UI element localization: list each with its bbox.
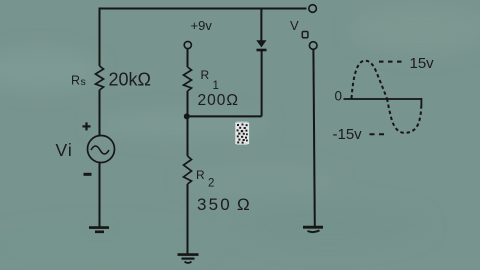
svg-text:2: 2 [208,178,214,190]
ground (Vi) [89,228,109,232]
svg-text:Ω: Ω [237,195,250,214]
wire 9v to R1 [187,49,189,67]
terminal Vo bottom [309,42,317,50]
resistor R2 [184,156,192,184]
label plus (Vi) [83,122,91,130]
waveform positive half-cycle [352,61,388,99]
svg-text:R: R [71,74,80,88]
waveform peak dashed level [379,61,404,63]
svg-text:R: R [196,168,205,182]
svg-text:-15v: -15v [333,126,363,143]
waveform graph axis [344,98,422,106]
svg-text:1: 1 [213,80,219,92]
wire Vi to ground [99,163,101,228]
waveform negative half-cycle [387,99,421,133]
wire R1 to node [187,91,189,116]
artifact white blob [235,122,249,146]
label minus (Vi) [84,173,92,176]
wire top horizontal [99,8,307,10]
svg-text:350: 350 [197,195,232,214]
label R1 [201,68,219,92]
node junction [184,113,190,119]
resistor Rs [96,66,104,90]
svg-text:Vi: Vi [56,140,73,160]
label 350 ohm [197,195,250,214]
wire Rs to Vi [99,90,101,136]
waveform trough dashed level [370,133,387,135]
source Vi [88,136,115,163]
svg-text:15v: 15v [410,55,435,72]
svg-text:s: s [81,76,86,88]
svg-text:+9v: +9v [191,18,213,33]
diode D1 [256,9,266,51]
wire Vo to ground [313,49,314,227]
wire node to diode branch [187,115,262,117]
svg-text:V: V [290,18,299,33]
wire R2 to ground [187,184,189,254]
terminal +9v [184,41,191,48]
svg-text:200Ω: 200Ω [198,92,239,109]
label Rs [71,74,86,89]
ground (Vo) [303,227,323,232]
wire diode branch vertical [261,51,263,117]
label Vo [290,18,308,38]
label R2 [196,168,214,190]
svg-text:20kΩ: 20kΩ [109,70,151,90]
resistor R1 [184,67,192,91]
ground (R2) [178,255,199,263]
svg-text:0: 0 [335,89,343,104]
wire node to R2 [187,116,189,156]
svg-text:R: R [201,68,210,82]
wire left vertical upper [99,8,101,67]
terminal Vo top [309,5,317,13]
